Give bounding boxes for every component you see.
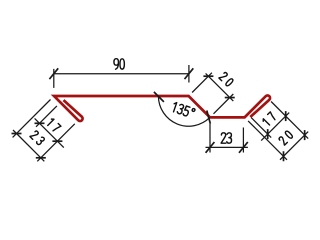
dim 90: tick right <box>185 68 194 79</box>
left block dim 23: tick at C'' <box>36 157 46 159</box>
right block: extension line from hem end H2 <box>251 118 271 138</box>
angle 135: tick at arc start <box>154 92 164 102</box>
dim 20 top: tick at T2 <box>225 97 235 99</box>
angle 135: tick at arc end <box>207 111 211 124</box>
dim 20 top: extension line from V1 <box>192 73 212 93</box>
right block dim 20: tick at T20a <box>283 151 285 161</box>
dim 90: tick left <box>49 68 58 79</box>
dim 20 top: tick at T1 <box>203 75 213 77</box>
label 90 <box>114 59 124 70</box>
label 23 bottom <box>221 133 231 143</box>
dim 23 bottom: tick left <box>206 142 215 153</box>
left block dim 17: tick at B' <box>35 122 45 124</box>
left block: dim 23 dimension line <box>13 130 44 161</box>
left block: dim 17 dimension line <box>35 118 64 147</box>
right block: extension line from tip P2 <box>271 102 308 139</box>
label 17 left <box>46 118 61 133</box>
dim 90: extension line right <box>188 65 190 83</box>
label 17 right <box>262 112 277 127</box>
left block: extension line from fold tip C <box>37 124 75 162</box>
label 23 left <box>30 130 45 145</box>
angle 135: arc <box>158 96 210 126</box>
dim 23 bottom: extension line left <box>209 124 211 153</box>
dim 23 bottom: extension line right <box>242 128 244 153</box>
right block dim 17: tick at T17a <box>267 129 269 139</box>
right block dim 17: tick at T17b <box>285 111 287 121</box>
right block dim 20: tick at T20b <box>304 130 306 140</box>
left block dim 23: tick at A'' <box>12 133 22 135</box>
profile: sheet-metal flashing (red) with hemmed ends <box>54 95 270 121</box>
right block: dim 20 dimension line <box>280 132 308 160</box>
dim 23 bottom: tick right <box>239 142 248 153</box>
label 20 top <box>219 72 234 87</box>
label 20 right <box>278 130 293 145</box>
left block: extension line from corner A <box>13 100 51 138</box>
dim 23 bottom: dimension line <box>206 146 248 148</box>
right block: extension line from corner V3 <box>248 121 287 160</box>
label 135deg <box>172 102 196 118</box>
dim 20 top: dimension line <box>206 73 234 101</box>
left block: extension line from hem end B <box>36 106 57 127</box>
dim 20 top: extension line from V2 <box>214 94 234 114</box>
dim 90: dimension line <box>54 73 189 75</box>
dim 90: extension line left <box>53 69 55 88</box>
left block dim 17: tick at C' <box>52 140 62 142</box>
right block: dim 17 dimension line <box>261 113 289 141</box>
